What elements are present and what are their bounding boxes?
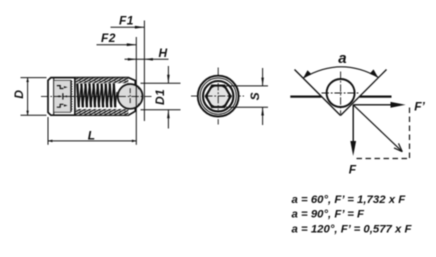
dimension D1 (141, 66, 181, 129)
F1 extension line (143, 21, 145, 122)
thread band top (76, 78, 129, 83)
dimension D (21, 78, 47, 116)
svg-text:a = 90°, F’ = F: a = 90°, F’ = F (292, 209, 366, 221)
hexagon socket (206, 86, 231, 107)
surface line right (360, 95, 392, 97)
svg-text:F2: F2 (101, 31, 116, 45)
front cross repaint (205, 83, 232, 110)
diagram ball centerlines (322, 72, 361, 115)
dimension S (226, 68, 268, 125)
angle arc (303, 67, 378, 78)
surface line left (290, 95, 321, 97)
svg-text:a = 60°, F’ = 1,732 x F: a = 60°, F’ = 1,732 x F (292, 194, 407, 206)
V notch left flank (295, 70, 341, 116)
svg-text:D: D (12, 90, 26, 99)
centerline (41, 95, 152, 97)
ball through socket (207, 85, 229, 107)
svg-text:F’: F’ (414, 99, 425, 113)
outer circle (198, 76, 239, 117)
ball (118, 84, 143, 109)
svg-text:a = 120°, F’ = 0,577 x F: a = 120°, F’ = 0,577 x F (292, 223, 413, 235)
svg-text:S: S (248, 92, 262, 100)
force F' arrow (353, 102, 405, 108)
dimension L (48, 117, 136, 145)
force F arrow (350, 105, 356, 156)
socket circle (203, 81, 233, 111)
socket marks (57, 86, 68, 108)
svg-text:F1: F1 (119, 14, 134, 28)
socket end wall (74, 78, 76, 115)
V notch right flank (341, 70, 387, 116)
F2 / L right extension line (135, 37, 137, 145)
diagram ball (327, 79, 355, 107)
dimension H (125, 58, 169, 61)
body outline (48, 78, 135, 116)
dimension F1 (111, 26, 145, 29)
resultant arrow (353, 105, 402, 152)
hex socket recess (54, 80, 72, 112)
dashed parallelogram (357, 108, 410, 159)
spring (77, 84, 117, 108)
svg-text:L: L (88, 128, 95, 142)
front centerlines (191, 68, 244, 125)
svg-text:F: F (349, 162, 357, 176)
inner circle (200, 78, 236, 114)
svg-text:H: H (159, 46, 168, 60)
left cap line (53, 78, 55, 115)
svg-text:D1: D1 (153, 89, 167, 105)
svg-text:a: a (338, 50, 346, 67)
dimension F2 (97, 43, 137, 46)
thread band bottom (76, 109, 129, 115)
